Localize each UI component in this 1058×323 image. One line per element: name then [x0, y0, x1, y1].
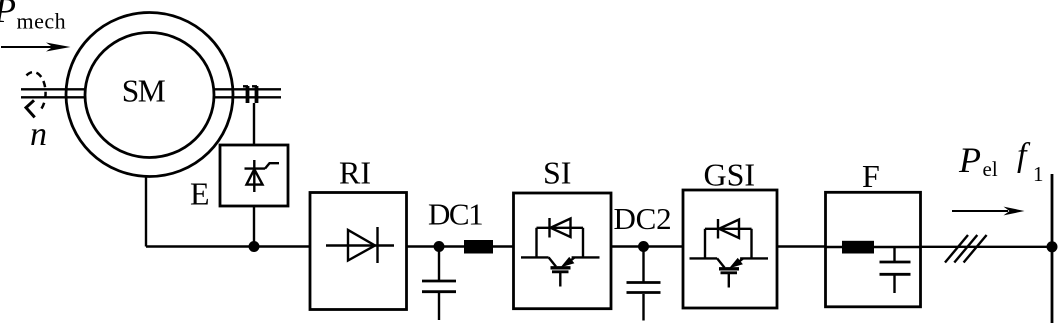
svg-text:SI: SI	[543, 155, 571, 191]
svg-text:mech: mech	[17, 9, 67, 34]
junction dot under E	[249, 241, 260, 252]
svg-text:RI: RI	[339, 155, 371, 191]
coupling tick 1	[243, 86, 248, 103]
coupling tick 2	[252, 86, 257, 103]
svg-text:F: F	[862, 158, 880, 194]
label f_1	[1017, 137, 1044, 186]
wire shaft to exciter box	[253, 103, 255, 146]
arrow P_el output	[952, 207, 1025, 216]
filter inductor (filled)	[826, 241, 921, 254]
rectifier box RI	[310, 193, 407, 310]
label P_mech	[0, 0, 66, 34]
svg-text:1: 1	[1033, 162, 1044, 186]
junction dot DC2	[638, 241, 649, 252]
svg-text:GSI: GSI	[704, 156, 756, 192]
dc-link capacitor C2	[627, 247, 661, 321]
thyristor (in E box)	[245, 160, 280, 192]
generator SM outer circle	[66, 13, 233, 177]
wire choke to SI	[493, 245, 514, 247]
svg-text:f: f	[1017, 137, 1031, 174]
wire bus SM to RI	[146, 245, 310, 247]
wire F to grid bus	[921, 246, 1053, 248]
IGBT with diode (in SI box)	[521, 218, 600, 287]
wire GSI to F	[777, 245, 826, 247]
svg-text:el: el	[983, 157, 998, 181]
three-phase slashes	[945, 235, 987, 263]
svg-text:SM: SM	[122, 74, 166, 109]
filter box F	[826, 192, 921, 306]
exciter box E	[220, 145, 288, 206]
junction dot DC1	[434, 241, 445, 252]
rotation arrow (dashed)	[26, 72, 46, 117]
grid-side inverter box GSI	[683, 190, 777, 308]
filter capacitor	[880, 247, 911, 293]
svg-text:DC2: DC2	[614, 201, 672, 236]
generator SM inner circle	[85, 33, 214, 158]
shaft left (double line)	[21, 89, 86, 97]
svg-text:n: n	[30, 116, 47, 153]
svg-text:DC1: DC1	[428, 197, 482, 232]
wire SI to GSI	[611, 245, 683, 247]
arrow P_mech input	[1, 43, 71, 52]
diode (in RI box)	[326, 227, 394, 263]
smoothing choke (filled)	[464, 240, 493, 254]
IGBT with diode (in GSI box)	[690, 219, 769, 288]
junction dot grid	[1047, 241, 1058, 252]
wire SM bottom lead	[145, 177, 147, 247]
inverter box SI	[514, 193, 612, 309]
shaft right (double line)	[213, 89, 281, 97]
grid bus vertical line	[1051, 174, 1054, 323]
svg-text:P: P	[958, 140, 981, 180]
label P_el	[958, 140, 998, 181]
wire RI to choke	[407, 245, 465, 247]
wire E box to bus	[253, 206, 255, 247]
svg-text:E: E	[190, 176, 210, 212]
dc-link capacitor C1	[422, 247, 456, 321]
svg-text:P: P	[0, 0, 16, 30]
